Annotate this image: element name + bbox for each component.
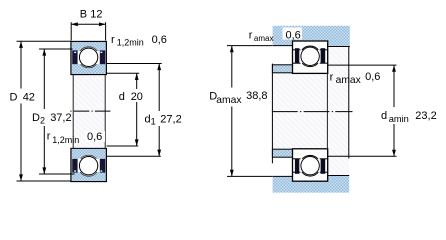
Da extension line bottom xyxy=(227,175,272,177)
shaft shoulder strip top xyxy=(272,65,292,73)
svg-text:amax: amax xyxy=(216,95,242,106)
housing bottom band xyxy=(273,176,350,193)
Da arrow top xyxy=(230,46,234,53)
svg-text:r: r xyxy=(47,130,51,142)
d1 dimension line xyxy=(158,64,160,112)
svg-text:0,6: 0,6 xyxy=(152,34,167,46)
svg-text:r: r xyxy=(111,34,115,46)
svg-text:D2: D2 xyxy=(32,112,45,126)
top seal left xyxy=(72,50,77,64)
svg-text:38,8: 38,8 xyxy=(246,90,267,102)
bottom groove circle xyxy=(78,155,99,176)
D extension line bottom xyxy=(17,180,72,182)
svg-text:B: B xyxy=(80,9,87,21)
bore silhouette line left xyxy=(72,75,74,149)
svg-text:D: D xyxy=(10,91,18,103)
svg-text:37,2: 37,2 xyxy=(50,112,71,124)
B dimension line xyxy=(71,23,105,25)
bore hatch region between halves xyxy=(73,75,105,149)
housing bottom band bore edge xyxy=(273,175,350,178)
d1 label xyxy=(144,112,182,124)
right bottom ball xyxy=(301,157,319,175)
bottom half outer box xyxy=(71,149,106,182)
bottom ball xyxy=(79,157,97,175)
right bottom seal right xyxy=(321,159,326,174)
svg-text:d: d xyxy=(119,91,125,103)
shaft shoulder strip bottom xyxy=(272,149,292,157)
bottom inner ring band xyxy=(72,149,106,159)
shaft hatch band xyxy=(272,73,348,149)
D2 dimension line xyxy=(43,49,45,109)
da extension line bottom xyxy=(328,155,397,157)
top outer ring band xyxy=(72,42,106,51)
svg-text:20: 20 xyxy=(131,91,143,103)
Da extension line top xyxy=(227,45,272,47)
d1 extension line top xyxy=(107,63,162,65)
da extension line top xyxy=(328,64,397,66)
svg-text:amax: amax xyxy=(254,34,274,43)
D dimension line xyxy=(20,41,22,88)
d1 arrow bottom xyxy=(157,150,161,157)
bottom seal right xyxy=(100,159,105,173)
da arrow top xyxy=(392,65,396,72)
top half outer box xyxy=(71,42,106,75)
svg-text:0,6: 0,6 xyxy=(365,71,380,83)
centerline left figure xyxy=(70,110,110,112)
da dimension line xyxy=(393,65,395,107)
r12min label bottom xyxy=(85,131,105,142)
right top ball xyxy=(301,47,319,65)
d1 extension line bottom xyxy=(107,155,161,157)
svg-text:0,6: 0,6 xyxy=(87,131,102,143)
D2 extension line bottom xyxy=(39,173,75,175)
D2 arrow top xyxy=(42,49,46,56)
svg-text:r: r xyxy=(249,30,253,42)
svg-text:42: 42 xyxy=(23,91,35,103)
right bottom groove circle xyxy=(300,155,321,176)
shaft break line right xyxy=(348,47,350,159)
svg-text:amax: amax xyxy=(336,75,362,86)
top inner ring band xyxy=(72,64,106,74)
right top seal right xyxy=(321,48,326,63)
svg-text:27,2: 27,2 xyxy=(160,113,181,125)
B arrow left xyxy=(71,22,78,26)
D arrow bottom xyxy=(19,174,23,181)
svg-text:12: 12 xyxy=(90,9,102,21)
top ball xyxy=(79,48,97,66)
right bottom seal left xyxy=(295,159,299,174)
d dimension line xyxy=(136,73,138,89)
D arrow top xyxy=(19,41,23,48)
right bearing bottom half box xyxy=(293,149,328,181)
d arrow top xyxy=(135,73,139,80)
B arrow right xyxy=(99,22,106,26)
right top inner ring top edges xyxy=(293,62,301,64)
D2 extension line top xyxy=(39,48,73,50)
svg-text:d: d xyxy=(381,110,387,122)
svg-text:amin: amin xyxy=(389,114,409,124)
d extension line top xyxy=(107,72,140,74)
right bottom inner ring bottom edges xyxy=(293,158,301,160)
bore silhouette line right xyxy=(104,75,106,149)
svg-text:1,2min: 1,2min xyxy=(52,135,79,145)
bearing bore silhouette right figure xyxy=(326,73,328,149)
Da dimension line xyxy=(231,46,233,88)
D extension line top xyxy=(17,40,72,42)
right top groove circle xyxy=(300,46,321,67)
svg-text:r: r xyxy=(330,72,334,84)
shaft break line left xyxy=(271,64,273,164)
right top outer ring bottom edges xyxy=(293,49,301,51)
svg-text:0,6: 0,6 xyxy=(286,30,301,42)
svg-text:1,2min: 1,2min xyxy=(117,38,144,48)
d arrow bottom xyxy=(135,139,139,146)
bottom seal left xyxy=(72,159,77,173)
right top seal left xyxy=(295,48,299,63)
d extension line bottom xyxy=(107,145,139,147)
right bearing top half box xyxy=(293,41,328,73)
housing top band bore edge xyxy=(273,45,350,48)
B extension line left xyxy=(70,22,72,40)
d1 arrow top xyxy=(157,64,161,71)
bottom outer ring band xyxy=(72,172,106,181)
top groove circle xyxy=(78,47,99,68)
Da arrow bottom xyxy=(230,170,234,177)
centerline right figure xyxy=(272,111,353,113)
ra label top-left with white box xyxy=(283,28,303,40)
svg-text:23,2: 23,2 xyxy=(415,110,436,122)
B extension line right xyxy=(105,22,107,40)
housing top band xyxy=(273,26,350,47)
da arrow bottom xyxy=(392,150,396,157)
right bottom outer ring top edges xyxy=(293,171,301,173)
d label xyxy=(118,90,144,101)
D2 arrow bottom xyxy=(42,167,46,174)
top seal right xyxy=(100,50,105,64)
